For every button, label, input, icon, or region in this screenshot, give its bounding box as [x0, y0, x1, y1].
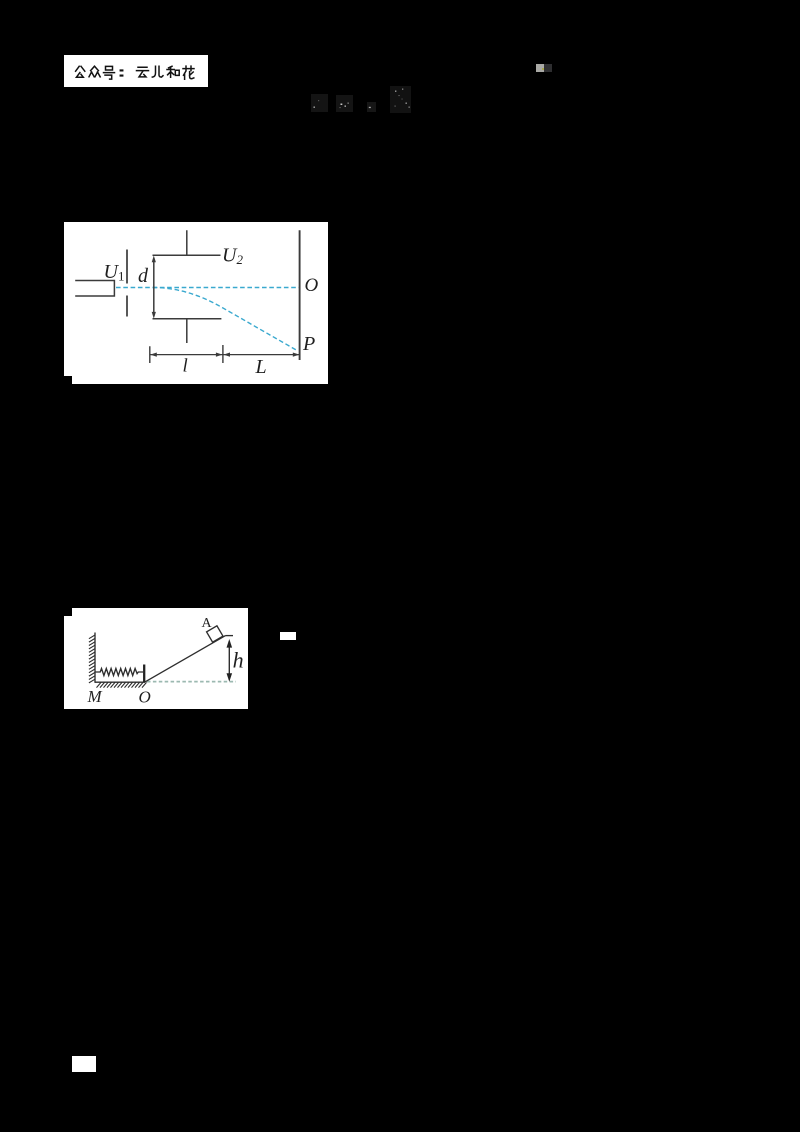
- svg-text:P: P: [302, 333, 315, 355]
- svg-text:M: M: [87, 687, 103, 706]
- svg-text:O: O: [139, 688, 151, 707]
- svg-text:O: O: [305, 275, 319, 296]
- svg-text:h: h: [233, 648, 244, 673]
- svg-text:L: L: [255, 356, 267, 378]
- svg-text:U1: U1: [104, 261, 125, 284]
- svg-text:d: d: [138, 265, 149, 287]
- svg-text:U2: U2: [222, 245, 243, 268]
- svg-text:A: A: [202, 616, 213, 631]
- svg-text:l: l: [183, 356, 188, 377]
